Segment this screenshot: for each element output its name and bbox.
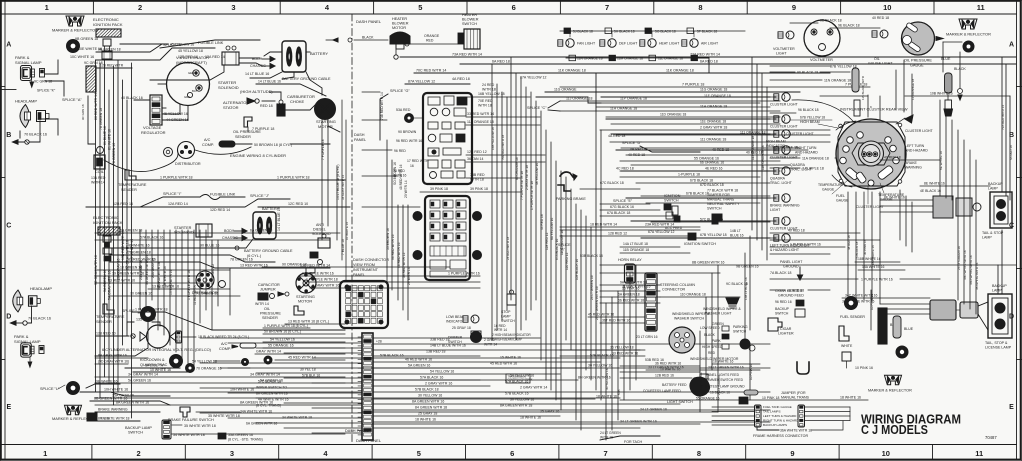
- svg-text:4H WHITE W/TR 16: 4H WHITE W/TR 16: [258, 398, 289, 402]
- svg-text:96 RED 16: 96 RED 16: [775, 300, 792, 304]
- svg-text:SPLICE "A": SPLICE "A": [62, 98, 82, 102]
- svg-text:SPLICE "E": SPLICE "E": [613, 199, 633, 203]
- svg-text:E: E: [6, 404, 11, 411]
- svg-text:(8 CYL. -STD. TRANS): (8 CYL. -STD. TRANS): [228, 438, 263, 442]
- svg-text:67A BLACK 16: 67A BLACK 16: [555, 239, 559, 260]
- svg-text:5A GREEN 16: 5A GREEN 16: [128, 379, 151, 383]
- wire 6A green 2: [600, 293, 660, 298]
- svg-text:24 LT GREEN: 24 LT GREEN: [717, 376, 721, 396]
- light switch: [643, 373, 745, 404]
- wire 128 red 10: [96, 332, 135, 339]
- svg-text:BATTERY FEED: BATTERY FEED: [662, 383, 687, 387]
- svg-text:W/TR 14: W/TR 14: [255, 302, 269, 306]
- svg-text:57B BLACK 18: 57B BLACK 18: [415, 388, 439, 392]
- svg-text:12A RED 14: 12A RED 14: [168, 202, 188, 206]
- svg-text:BLUE: BLUE: [904, 327, 914, 331]
- svg-text:57B BLK 16: 57B BLK 16: [302, 374, 320, 378]
- ignition coil: [91, 147, 106, 185]
- wire 10 pink bottom: [739, 390, 779, 404]
- heater blower switch: [405, 13, 480, 49]
- ignition switch feed row: [560, 226, 727, 240]
- label 70 black: [0, 0, 1, 1]
- svg-text:TRAC. LIGHT: TRAC. LIGHT: [790, 168, 813, 172]
- splice A2: [558, 243, 640, 259]
- svg-text:AND HAZARD: AND HAZARD: [795, 151, 818, 155]
- svg-text:34D WHITE W/TR 16: 34D WHITE W/TR 16: [969, 255, 973, 285]
- backup lamp switch: [125, 420, 345, 439]
- left rows y268-276: [95, 266, 230, 277]
- svg-text:2 HIGH BEAM LAMP: 2 HIGH BEAM LAMP: [492, 338, 522, 342]
- svg-text:7 PURPLE 18: 7 PURPLE 18: [682, 83, 704, 87]
- alternator to regulator wires: [134, 100, 188, 120]
- parking brake: [556, 172, 640, 201]
- starter wires mid: [306, 72, 340, 132]
- voltage regulator VR2: [121, 95, 189, 135]
- wires into dash connector left side: [200, 338, 362, 433]
- svg-text:2 GRAY W/TR 16: 2 GRAY W/TR 16: [312, 284, 339, 288]
- anti-diesel solenoid: [306, 223, 331, 273]
- svg-text:11A ORANGE 18: 11A ORANGE 18: [802, 157, 829, 161]
- vertical wires col9: [939, 100, 979, 314]
- svg-text:1 PURPLE W/TR 16: 1 PURPLE W/TR 16: [448, 272, 480, 276]
- svg-text:LOW SPEED: LOW SPEED: [700, 326, 720, 330]
- svg-text:HEADLAMP: HEADLAMP: [30, 286, 52, 291]
- vertical feeds fuse panel: [386, 140, 411, 320]
- svg-text:11E ORANGE 18: 11E ORANGE 18: [761, 145, 765, 170]
- svg-text:9B GREEN 18: 9B GREEN 18: [98, 48, 121, 52]
- wires into cluster: [832, 60, 915, 187]
- wire 7 purple right: [560, 83, 870, 88]
- svg-text:3A GREEN 16: 3A GREEN 16: [103, 270, 107, 292]
- svg-text:53A RED: 53A RED: [396, 108, 411, 112]
- svg-text:78 GREEN 18: 78 GREEN 18: [128, 251, 151, 255]
- fuel sender (right): [840, 297, 865, 320]
- svg-text:SWITCH: SWITCH: [707, 207, 722, 211]
- svg-text:1 PURPLE W/TR 18 (8 CYL.): 1 PURPLE W/TR 18 (8 CYL.): [264, 324, 308, 328]
- svg-text:WASHER SWITCH: WASHER SWITCH: [674, 317, 704, 321]
- svg-text:WINDSHIELD WIPER &: WINDSHIELD WIPER &: [703, 307, 741, 311]
- coil feed wires: [81, 96, 100, 146]
- cigar lighter: [768, 260, 804, 336]
- wire 1 purple right: [620, 173, 760, 178]
- svg-text:30 YEL 18: 30 YEL 18: [300, 368, 316, 372]
- oil gauge light: [868, 30, 893, 66]
- svg-text:LAMP: LAMP: [982, 236, 992, 240]
- svg-text:GRAY W/TR 14: GRAY W/TR 14: [256, 350, 281, 354]
- svg-text:PANEL LIGHTS FEED: PANEL LIGHTS FEED: [706, 373, 740, 377]
- svg-text:5A GREEN 16: 5A GREEN 16: [408, 364, 430, 368]
- electronic ignition pack 2: [93, 215, 123, 247]
- svg-text:67B BLACK 18: 67B BLACK 18: [686, 192, 709, 196]
- svg-text:18 WHITE 16: 18 WHITE 16: [713, 360, 733, 364]
- wire 11G orange: [545, 88, 800, 93]
- wire 8B green: [600, 261, 1016, 269]
- marker & reflector (top right): [946, 19, 991, 37]
- voltage regulator VR1: [84, 61, 103, 92]
- ignition switch (lower): [620, 229, 744, 253]
- wire 42 black: [96, 64, 132, 69]
- svg-text:14 LT BLUE 16: 14 LT BLUE 16: [277, 207, 281, 231]
- svg-text:CLUSTER LIGHT: CLUSTER LIGHT: [770, 156, 798, 160]
- wire band lower left: [95, 322, 362, 405]
- wire 66 red: [600, 299, 660, 304]
- svg-text:BACKUP LAMP: BACKUP LAMP: [125, 426, 152, 430]
- svg-text:SPLICE "L": SPLICE "L": [40, 387, 60, 391]
- svg-text:CAPACITOR: CAPACITOR: [258, 283, 280, 287]
- wire 18 red bottom row2: [560, 223, 700, 228]
- svg-text:1 PURPLE W/TR 18: 1 PURPLE W/TR 18: [306, 278, 338, 282]
- wire 26 pink: [600, 287, 660, 292]
- A/C compressor: [202, 138, 330, 147]
- svg-text:17 RED W/TR: 17 RED W/TR: [407, 159, 429, 163]
- electronic ignition pack U1: [93, 17, 123, 59]
- wire 55 orange right: [620, 157, 780, 162]
- svg-text:SENDER: SENDER: [96, 320, 112, 324]
- wire 54 yellow mid: [263, 338, 345, 343]
- svg-text:2 GRAY W/TR 14: 2 GRAY W/TR 14: [520, 386, 547, 390]
- svg-text:5A GRAY W/TR 16: 5A GRAY W/TR 16: [108, 271, 112, 300]
- svg-text:ORANGE: ORANGE: [424, 34, 440, 38]
- svg-text:2 GRAY W/TR 18: 2 GRAY W/TR 18: [700, 126, 727, 130]
- wire 55 orange mid: [263, 344, 345, 349]
- starter solenoid K1: [218, 46, 239, 90]
- right connectors row C: [880, 189, 981, 218]
- svg-text:TAIL, STOP &: TAIL, STOP &: [985, 341, 1008, 345]
- rear harness connectors: [880, 300, 988, 330]
- svg-text:7 PURPLE 18: 7 PURPLE 18: [252, 127, 274, 131]
- svg-text:66 ORANGE 16: 66 ORANGE 16: [515, 157, 519, 180]
- svg-text:40 RED 18: 40 RED 18: [872, 16, 889, 20]
- svg-text:HEADLAMP: HEADLAMP: [15, 99, 37, 104]
- wire 83 red: [110, 258, 330, 269]
- svg-text:4E BLACK 16: 4E BLACK 16: [920, 189, 941, 193]
- svg-text:BATTERY: BATTERY: [310, 51, 328, 56]
- capacitor jumper: [258, 283, 289, 300]
- svg-text:73B RED W/TR 14: 73B RED W/TR 14: [380, 92, 384, 120]
- svg-text:SENDER: SENDER: [121, 188, 137, 192]
- wire 18 white right mid: [712, 360, 760, 365]
- svg-text:SPLICE "H": SPLICE "H": [145, 364, 165, 368]
- svg-text:57C BLACK 16: 57C BLACK 16: [700, 218, 723, 222]
- voltmeter: [804, 20, 840, 62]
- cluster light bulb y221: [770, 217, 798, 231]
- svg-text:24 LT GREEN: 24 LT GREEN: [600, 431, 621, 435]
- svg-text:SOLENOID: SOLENOID: [218, 85, 239, 90]
- cluster light bulb y119: [770, 115, 798, 129]
- svg-text:MOTOR: MOTOR: [318, 124, 333, 129]
- svg-text:SPLICE "D": SPLICE "D": [622, 141, 642, 145]
- svg-text:128 RED 12: 128 RED 12: [545, 232, 549, 250]
- high beam indicator: [766, 130, 790, 148]
- svg-text:18B WHITE 16: 18B WHITE 16: [858, 257, 881, 261]
- svg-text:10 PINK 18: 10 PINK 18: [762, 396, 779, 400]
- svg-text:34 GRAY W/TR 14: 34 GRAY W/TR 14: [341, 175, 345, 200]
- starter solenoid 2: [174, 224, 247, 241]
- svg-text:57B: 57B: [617, 389, 621, 395]
- wire for tach: [600, 431, 660, 444]
- svg-text:BAT: BAT: [192, 89, 198, 93]
- wire 110 orange r: [770, 154, 868, 161]
- svg-text:A: A: [6, 42, 11, 49]
- wire 11K orange: [520, 69, 830, 80]
- svg-text:AIR LIGHT: AIR LIGHT: [701, 42, 719, 46]
- dash connector fan-out wires: [373, 338, 770, 428]
- wire 70C red extension: [560, 73, 596, 111]
- svg-text:57B BLACK 16: 57B BLACK 16: [380, 354, 404, 358]
- svg-text:FUEL: FUEL: [836, 194, 845, 198]
- wire 34C white wtr: [842, 294, 930, 299]
- wires right rows y180-230: [560, 179, 770, 231]
- svg-text:LIGHT SWITCH: LIGHT SWITCH: [667, 400, 693, 404]
- svg-text:SWITCH: SWITCH: [664, 199, 679, 203]
- svg-text:PANEL: PANEL: [354, 138, 366, 142]
- wire 1 purple mid: [300, 272, 480, 277]
- wire splice H: [125, 364, 190, 373]
- svg-text:70 ORANGE 16: 70 ORANGE 16: [196, 367, 222, 371]
- svg-text:CLUSTER LIGHT: CLUSTER LIGHT: [905, 129, 933, 133]
- wire 11N orange r: [770, 79, 851, 83]
- wire 50 brown mid: [263, 330, 345, 335]
- wire 110 orange mid: [660, 293, 740, 298]
- vertical wires mid-left bundle 2: [139, 230, 197, 370]
- dash lights chain: [560, 28, 745, 34]
- svg-text:36 TAN 14: 36 TAN 14: [467, 157, 483, 161]
- svg-text:11G ORANGE 18: 11G ORANGE 18: [700, 88, 727, 92]
- svg-text:9C GRN 18: 9C GRN 18: [81, 104, 85, 120]
- svg-text:30 YELLOW 16: 30 YELLOW 16: [510, 398, 534, 402]
- svg-text:9B GREEN 18: 9B GREEN 18: [75, 37, 98, 41]
- wire 1 purple mid2: [305, 278, 480, 283]
- svg-text:48 YELLOW 16: 48 YELLOW 16: [535, 163, 539, 185]
- svg-text:COMP.: COMP.: [202, 143, 214, 147]
- svg-text:5G BLACK 18: 5G BLACK 18: [655, 30, 676, 34]
- svg-text:39 PINK 18: 39 PINK 18: [430, 187, 448, 191]
- svg-text:11K ORANGE 18: 11K ORANGE 18: [666, 69, 694, 73]
- svg-text:24 LT GREEN 16: 24 LT GREEN 16: [957, 246, 961, 270]
- svg-text:SPLICE "G": SPLICE "G": [390, 89, 410, 93]
- svg-text:7: 7: [605, 3, 609, 12]
- cluster light bulb y150: [770, 146, 798, 160]
- svg-text:11A ORANGE 18: 11A ORANGE 18: [467, 120, 494, 124]
- svg-text:DASH PANEL: DASH PANEL: [345, 429, 369, 433]
- svg-text:TEMPERATURE: TEMPERATURE: [118, 183, 147, 187]
- backup lamp top right wires: [852, 68, 940, 160]
- svg-text:39 PINK 18: 39 PINK 18: [470, 187, 488, 191]
- svg-text:81 BLUE 16: 81 BLUE 16: [103, 126, 107, 145]
- wire tails right mid: [718, 345, 928, 404]
- svg-text:DIESEL: DIESEL: [313, 228, 326, 232]
- svg-text:DASH PANEL: DASH PANEL: [356, 19, 382, 24]
- svg-text:AND HAZARD: AND HAZARD: [905, 149, 928, 153]
- svg-text:80 RED W/TR 14: 80 RED W/TR 14: [94, 93, 98, 120]
- svg-text:STARTER: STARTER: [174, 226, 192, 230]
- svg-text:33 RED W/TR 14: 33 RED W/TR 14: [467, 112, 494, 116]
- svg-text:73A RED W/TR 14: 73A RED W/TR 14: [1001, 105, 1005, 130]
- wire 23 lt green: [620, 366, 760, 371]
- svg-text:BLACK: BLACK: [362, 36, 374, 40]
- wire 16B yellow: [460, 92, 530, 108]
- svg-text:11D ORANGE 18: 11D ORANGE 18: [660, 113, 686, 117]
- tail stop license lamp (row D): [985, 284, 1012, 350]
- wires right rows y95-130: [536, 97, 780, 124]
- svg-text:BACKUP: BACKUP: [775, 307, 790, 311]
- svg-text:25 GRAY 16: 25 GRAY 16: [540, 410, 559, 414]
- starting motor M1 (top): [315, 99, 336, 130]
- svg-text:5H BLACK 18: 5H BLACK 18: [614, 30, 635, 34]
- svg-text:DEF LIGHT: DEF LIGHT: [619, 42, 638, 46]
- brake warning wires: [95, 408, 160, 422]
- svg-text:9B GREEN 16: 9B GREEN 16: [736, 265, 759, 269]
- battery B+ (top): [245, 41, 331, 81]
- oil pressure sender 2: [255, 302, 304, 320]
- svg-text:54 YELLOW 16: 54 YELLOW 16: [430, 370, 454, 374]
- svg-text:70487: 70487: [985, 435, 997, 440]
- park & signal lamp (row A): [2, 55, 56, 93]
- svg-text:GAUGE: GAUGE: [836, 199, 849, 203]
- svg-text:VIEW FROM: VIEW FROM: [353, 263, 375, 267]
- svg-text:10: 10: [882, 449, 890, 458]
- svg-text:26 PINK 16: 26 PINK 16: [622, 287, 639, 291]
- svg-text:19 GREEN W/TR 16: 19 GREEN W/TR 16: [112, 272, 144, 276]
- svg-text:OIL: OIL: [874, 57, 880, 61]
- svg-text:HEATER: HEATER: [462, 13, 477, 17]
- svg-text:1: 1: [43, 449, 47, 458]
- svg-text:JUMPER: JUMPER: [260, 288, 276, 292]
- svg-text:87A YELLOW 12: 87A YELLOW 12: [408, 80, 435, 84]
- alternator stator: [223, 98, 275, 110]
- stair wires to cluster lights: [601, 97, 770, 238]
- svg-text:14 LT BLUE 18 (8 CYL.): 14 LT BLUE 18 (8 CYL.): [336, 165, 340, 200]
- svg-text:D: D: [6, 313, 11, 320]
- svg-text:48 RED 18: 48 RED 18: [847, 235, 851, 250]
- svg-text:8H GREEN W/TR 16: 8H GREEN W/TR 16: [256, 392, 288, 396]
- svg-text:COIL: COIL: [95, 170, 104, 174]
- cluster light stubs: [770, 97, 776, 238]
- svg-text:WINDSHIELD WIPER &: WINDSHIELD WIPER &: [672, 312, 710, 316]
- svg-text:84 GREEN W/TR 18: 84 GREEN W/TR 18: [415, 406, 447, 410]
- svg-text:18 RED W/TR 14: 18 RED W/TR 14: [590, 223, 617, 227]
- svg-text:18 WHITE 16: 18 WHITE 16: [596, 395, 617, 399]
- svg-text:QUADRA: QUADRA: [790, 163, 806, 167]
- wire 45 red mid: [264, 356, 345, 365]
- svg-text:CONNECTOR: CONNECTOR: [662, 288, 685, 292]
- wire 11H orange: [560, 105, 780, 112]
- svg-text:IGNITION PACK: IGNITION PACK: [93, 22, 123, 27]
- svg-text:45 RED W/TR 16: 45 RED W/TR 16: [490, 362, 517, 366]
- svg-text:COMP.: COMP.: [219, 347, 231, 351]
- svg-text:CLUSTER LIGHT: CLUSTER LIGHT: [770, 125, 798, 129]
- wire 13 red mid: [285, 320, 345, 325]
- svg-text:81 WHITE 16: 81 WHITE 16: [108, 129, 112, 150]
- title block: [861, 412, 997, 441]
- svg-text:3: 3: [230, 449, 234, 458]
- bulb top right: [963, 41, 974, 52]
- svg-text:48 RED 18: 48 RED 18: [787, 289, 804, 293]
- svg-text:LICENSE LAMP: LICENSE LAMP: [985, 346, 1012, 350]
- svg-text:70 GREEN 16: 70 GREEN 16: [196, 292, 218, 296]
- wire row B right edge: [820, 92, 1010, 97]
- svg-text:13 RED W/TR 16: 13 RED W/TR 16: [152, 285, 179, 289]
- bottom long wires: [95, 354, 718, 425]
- svg-text:MARKER & REFLECTOR: MARKER & REFLECTOR: [52, 28, 98, 33]
- svg-text:C J MODELS: C J MODELS: [861, 422, 928, 437]
- svg-text:11K ORANGE 18: 11K ORANGE 18: [558, 69, 586, 73]
- svg-text:RED: RED: [426, 39, 434, 43]
- svg-text:34 GRAY W/TR 14: 34 GRAY W/TR 14: [128, 373, 158, 377]
- carburetor choke: [277, 94, 315, 116]
- svg-text:GROUND FEED: GROUND FEED: [778, 294, 804, 298]
- svg-text:FUEL SENDER: FUEL SENDER: [840, 315, 865, 319]
- svg-text:2 GRAY W/TR 18: 2 GRAY W/TR 18: [525, 165, 529, 190]
- svg-text:QUADRA: QUADRA: [770, 177, 786, 181]
- svg-text:CIGAR: CIGAR: [780, 327, 792, 331]
- svg-text:TAIL LAMPS: TAIL LAMPS: [763, 410, 781, 414]
- vertical bundle right x755: [751, 57, 767, 260]
- wire right edge white: [920, 182, 990, 187]
- svg-text:11N ORANGE 18: 11N ORANGE 18: [577, 57, 603, 61]
- svg-text:23 LT GREEN W/TR 16: 23 LT GREEN W/TR 16: [648, 366, 684, 370]
- svg-text:STOP: STOP: [501, 310, 511, 314]
- air light L4: [682, 31, 719, 47]
- wire 10 pink vertical: [749, 345, 753, 400]
- cluster light bulb y238: [770, 234, 809, 252]
- svg-text:36A WHITE W/TR 18: 36A WHITE W/TR 18: [780, 429, 812, 433]
- wire 90 orange: [262, 263, 450, 268]
- svg-text:148 LT BLUE 16: 148 LT BLUE 16: [744, 277, 748, 300]
- svg-text:FUSIBLE LINK: FUSIBLE LINK: [210, 193, 236, 197]
- wire 34C white: [838, 300, 880, 305]
- heat light L3: [640, 31, 680, 47]
- svg-text:8B GREEN W/TR 16: 8B GREEN W/TR 16: [692, 261, 725, 265]
- left fan labels: [240, 368, 320, 426]
- battery 2: [235, 207, 293, 258]
- svg-text:128 RED 12: 128 RED 12: [608, 232, 627, 236]
- wire purple 1: [135, 176, 345, 181]
- svg-text:6A GREEN 18: 6A GREEN 18: [120, 229, 142, 233]
- svg-text:BACKUP: BACKUP: [992, 284, 1007, 288]
- wire 18B white: [855, 257, 905, 270]
- svg-text:13B RED 18: 13B RED 18: [426, 350, 446, 354]
- wire 11P/11F orange: [560, 94, 780, 101]
- svg-text:18A WHITE 16: 18A WHITE 16: [871, 245, 875, 265]
- fan light L1: [558, 31, 596, 47]
- svg-text:2: 2: [137, 449, 141, 458]
- svg-text:12C RED 12: 12C RED 12: [467, 150, 487, 154]
- svg-text:50 BROWN 16: 50 BROWN 16: [386, 228, 390, 250]
- svg-text:SPLICE "C": SPLICE "C": [527, 106, 547, 110]
- wire 2 gray right: [600, 126, 830, 131]
- svg-text:8H WHITE W/TR 18: 8H WHITE W/TR 18: [98, 417, 130, 421]
- svg-text:6A RED 18: 6A RED 18: [1009, 145, 1013, 160]
- instrument cluster rear view: [836, 107, 913, 190]
- V-8 alternator G1: [158, 55, 210, 106]
- svg-text:DASH: DASH: [354, 133, 365, 137]
- svg-text:67A YELLOW 12: 67A YELLOW 12: [648, 230, 674, 234]
- splice A label: [62, 98, 82, 102]
- svg-text:(8 CYL. TRANS): (8 CYL. TRANS): [256, 404, 281, 408]
- svg-text:VOLTMETER: VOLTMETER: [810, 58, 833, 62]
- windshield wiper washer switch: [669, 312, 710, 353]
- svg-text:35A GREEN 16: 35A GREEN 16: [228, 433, 253, 437]
- svg-text:8: 8: [698, 3, 702, 12]
- wire 45 red 2: [588, 313, 645, 318]
- fuse panel upper block (relays): [423, 93, 472, 184]
- svg-text:1 PURPLE W/TR 18: 1 PURPLE W/TR 18: [530, 181, 534, 210]
- svg-text:110 ORANGE 18: 110 ORANGE 18: [680, 293, 706, 297]
- distributor top: [164, 142, 201, 167]
- blue black cylinders: [941, 42, 966, 116]
- svg-text:8E WHITE 16: 8E WHITE 16: [884, 196, 905, 200]
